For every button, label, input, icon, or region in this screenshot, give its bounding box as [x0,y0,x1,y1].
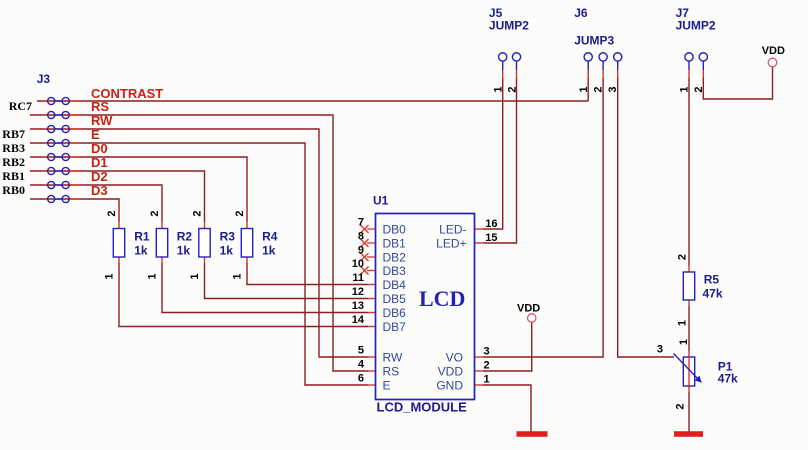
svg-text:RB0: RB0 [2,183,25,197]
svg-text:10: 10 [352,258,364,270]
wire CONTRAST net J3.r1 to J6.1 [37,70,588,101]
U1 pin numbers [352,217,663,386]
svg-text:8: 8 [358,231,364,243]
svg-text:LED-: LED- [439,223,466,237]
wire R5 bottom to P1 pin1 [688,306,690,351]
wire E net J3.r4 to U1 pin6 [30,143,368,385]
svg-text:2: 2 [484,360,490,372]
svg-text:R5: R5 [704,273,720,287]
svg-text:2: 2 [507,86,519,92]
svg-text:DB3: DB3 [383,264,407,278]
svg-text:16: 16 [485,218,497,230]
svg-text:2: 2 [149,210,161,216]
svg-text:J6: J6 [574,6,588,20]
svg-text:DB5: DB5 [383,292,407,306]
wire RW net J3.r3 to U1 pin5 [30,129,368,357]
svg-text:DB1: DB1 [383,237,407,251]
connector J7 pins [685,53,708,70]
wire P1 pin2 to ground [688,392,690,432]
svg-text:6: 6 [358,373,364,385]
connector J6 pins [584,53,622,70]
svg-text:7: 7 [358,217,364,229]
svg-text:2: 2 [593,86,605,92]
svg-text:RB1: RB1 [2,169,25,183]
svg-text:1: 1 [578,86,590,92]
pin stubs red: component terminals [119,70,703,392]
svg-text:R1: R1 [134,230,150,244]
VDD texts [517,45,785,315]
svg-text:RC7: RC7 [9,99,32,113]
ground under P1 [674,431,703,437]
svg-text:2: 2 [693,86,705,92]
power VDD top-right symbol [768,58,777,67]
svg-text:VO: VO [446,351,463,365]
svg-text:LCD_MODULE: LCD_MODULE [377,400,468,415]
svg-text:15: 15 [485,232,497,244]
svg-text:3: 3 [607,86,619,92]
pin stubs red: J3 rows [42,101,80,199]
potentiometer P1 body [674,354,702,387]
svg-text:DB2: DB2 [383,251,407,265]
wire D1 net J3.r6 to R3 top [30,171,205,222]
svg-text:RS: RS [383,365,400,379]
svg-text:D1: D1 [91,155,108,170]
svg-text:JUMP2: JUMP2 [676,19,716,33]
svg-text:DB0: DB0 [383,223,407,237]
resistor R1 body [113,229,124,258]
wire VDD symbol to U1 pin2 VDD [483,323,532,372]
resistor R2 body [156,229,167,258]
wire J6.3 to P1 wiper [618,78,674,357]
net labels red [91,86,163,198]
wire R3 bottom to U1 pin12 DB5 [205,263,369,299]
svg-text:R3: R3 [220,230,236,244]
wire J7.1 to R5 top [688,78,690,266]
svg-text:DB4: DB4 [383,278,407,292]
no-connect pin 7 DB0 [361,225,376,233]
svg-text:VDD: VDD [517,303,540,315]
U1 inner pin names [383,223,467,393]
svg-text:J3: J3 [37,72,51,86]
wire D2 net J3.r7 to R2 top [30,185,162,222]
svg-text:1: 1 [493,86,505,92]
svg-text:U1: U1 [373,194,389,208]
svg-text:13: 13 [352,300,364,312]
no-connect pin 8 DB1 [361,239,376,247]
svg-text:R4: R4 [262,230,278,244]
svg-text:1k: 1k [134,244,148,258]
wire RS net J3.r2 to U1 pin4 [30,115,368,371]
wire D3 net J3.r8 to R1 top [30,199,119,222]
svg-text:1: 1 [232,273,244,279]
svg-text:11: 11 [352,272,364,284]
svg-text:DB7: DB7 [383,320,407,334]
resistor R3 body [199,229,210,258]
svg-text:VDD: VDD [438,365,464,379]
svg-text:1k: 1k [177,244,191,258]
ground under U1 GND [517,431,548,437]
svg-text:1: 1 [677,320,689,326]
svg-text:R2: R2 [177,230,193,244]
wire J6.2 to U1 pin3 VO [483,78,603,357]
svg-text:2: 2 [677,254,689,260]
svg-text:1: 1 [678,339,690,345]
svg-text:RB2: RB2 [2,155,25,169]
power VDD mid symbol [528,314,536,322]
wire J5.1 to U1 pin16 LED- [483,78,503,229]
svg-text:RS: RS [91,99,109,114]
wire J5.2 to U1 pin15 LED+ [483,78,517,243]
svg-text:1: 1 [484,374,490,386]
svg-text:1: 1 [104,273,116,279]
svg-text:1: 1 [147,273,159,279]
connector J3 pins [48,97,70,202]
svg-text:1: 1 [189,273,201,279]
svg-text:D2: D2 [91,169,108,184]
resistor R4 body [241,229,252,258]
svg-text:2: 2 [675,403,687,409]
svg-text:9: 9 [358,245,364,257]
svg-text:3: 3 [657,344,663,356]
svg-text:2: 2 [106,210,118,216]
svg-text:12: 12 [352,286,364,298]
svg-text:5: 5 [358,345,364,357]
no-connect pin 10 DB3 [361,267,376,275]
svg-text:RB3: RB3 [2,141,25,155]
svg-text:RW: RW [91,113,113,128]
wire R4 bottom to U1 pin11 DB4 [247,263,368,285]
wire D0 net J3.r5 to R4 top [30,157,247,222]
wire R1 bottom to U1 pin14 DB7 [119,263,368,327]
svg-text:DB6: DB6 [383,306,407,320]
svg-text:1: 1 [679,86,691,92]
svg-text:2: 2 [234,210,246,216]
svg-text:14: 14 [352,314,365,326]
svg-text:VDD: VDD [762,45,785,57]
resistor R5 body [683,272,694,300]
svg-text:1k: 1k [262,244,276,258]
connector J5 pins [499,53,521,70]
svg-text:LED+: LED+ [436,237,466,251]
svg-text:RB7: RB7 [2,127,25,141]
svg-text:RW: RW [383,351,403,365]
svg-text:D0: D0 [91,141,108,156]
svg-text:E: E [91,127,100,142]
wire U1 pin1 GND to ground [483,385,531,432]
svg-text:LCD: LCD [419,286,465,311]
no-connect pin 9 DB2 [361,253,376,261]
svg-text:GND: GND [436,379,463,393]
wire R2 bottom to U1 pin13 DB6 [162,263,368,313]
svg-text:47k: 47k [703,287,723,301]
svg-text:JUMP2: JUMP2 [489,19,529,33]
pin stubs red: U1 pins [368,229,483,385]
svg-text:47k: 47k [718,372,738,386]
svg-text:1k: 1k [220,244,234,258]
svg-text:4: 4 [358,359,365,371]
MCU port labels black serif [2,99,32,197]
op-amp U1 LCD module box [376,214,475,400]
svg-text:2: 2 [192,210,204,216]
rotated pin numbers [104,86,706,409]
wire J7.2 to VDD top right [703,67,772,99]
svg-text:D3: D3 [91,183,108,198]
svg-text:E: E [383,379,391,393]
svg-text:JUMP3: JUMP3 [574,34,614,48]
svg-text:3: 3 [484,346,490,358]
